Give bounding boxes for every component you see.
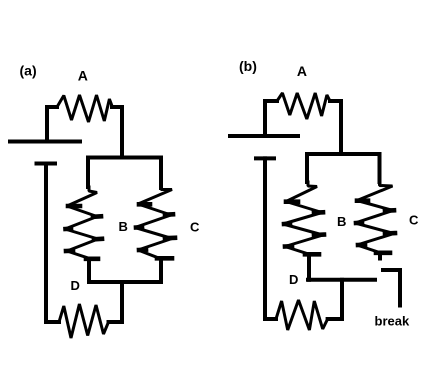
wire box right vertical (circuit a) <box>159 158 163 189</box>
svg-text:A: A <box>78 67 88 83</box>
wire battery+ to resistor A left lead (circuit a) <box>47 107 57 141</box>
wire resistor A right lead down to node (circuit a) <box>112 107 122 158</box>
resistor C peak blobs (circuit a) <box>136 204 175 258</box>
resistor A (circuit b) <box>277 93 330 119</box>
wire parallel box top (circuit b) <box>307 152 380 156</box>
battery long plate (circuit a) <box>10 140 80 144</box>
wire resistor B bottom stub (circuit b) <box>307 256 311 280</box>
wire bottom right segment (circuit b) <box>328 317 342 321</box>
wire resistor B bottom stub (circuit a) <box>87 260 91 282</box>
resistor B peak blobs (circuit a) <box>66 206 103 259</box>
wire battery- down left side (circuit b) <box>263 158 267 319</box>
resistor B (circuit b) <box>283 182 323 255</box>
wire box right vertical (circuit b) <box>378 154 382 182</box>
wire parallel box bottom (circuit a) <box>89 280 161 284</box>
battery long plate (circuit b) <box>230 134 298 138</box>
resistor A (circuit a) <box>57 95 112 122</box>
battery short plate (circuit b) <box>256 156 274 160</box>
wire parallel box top (circuit a) <box>88 156 161 160</box>
svg-text:B: B <box>337 214 346 229</box>
wire box left vertical (circuit b) <box>305 154 309 182</box>
svg-text:D: D <box>289 272 298 287</box>
resistor D (circuit a) <box>59 304 109 338</box>
wire battery+ to resistor A left lead (circuit b) <box>265 101 277 136</box>
wire break hook (circuit b) <box>383 270 400 306</box>
svg-text:(b): (b) <box>239 58 257 74</box>
wire bottom left segment (circuit a) <box>46 320 59 324</box>
wire bottom right segment (circuit a) <box>109 320 123 324</box>
wire resistor C bottom stub (circuit a) <box>159 260 163 282</box>
wire box bottom center down (circuit b) <box>340 280 344 319</box>
resistor D (circuit b) <box>276 300 328 330</box>
wire bottom left segment (circuit b) <box>265 317 276 321</box>
resistor C (circuit a) <box>135 187 172 259</box>
svg-text:(a): (a) <box>20 63 37 79</box>
resistor B (circuit a) <box>65 187 98 259</box>
wire resistor C bottom stub with break (circuit b) <box>378 253 382 259</box>
wire box bottom center down (circuit a) <box>120 282 124 322</box>
resistor B peak blobs (circuit b) <box>284 202 324 255</box>
svg-text:C: C <box>190 220 200 235</box>
svg-text:break: break <box>375 314 410 329</box>
svg-text:D: D <box>71 278 80 293</box>
battery short plate (circuit a) <box>37 162 56 166</box>
svg-text:B: B <box>119 219 128 234</box>
wire resistor A right lead down to node (circuit b) <box>330 101 341 154</box>
wire parallel box bottom (circuit b) <box>308 278 375 282</box>
wire battery- down left side (circuit a) <box>44 164 48 323</box>
wire box left vertical (circuit a) <box>86 158 90 188</box>
svg-text:C: C <box>409 213 419 228</box>
resistor C peak blobs (circuit b) <box>356 201 395 253</box>
svg-text:A: A <box>297 63 307 79</box>
resistor C (circuit b) <box>355 182 394 253</box>
